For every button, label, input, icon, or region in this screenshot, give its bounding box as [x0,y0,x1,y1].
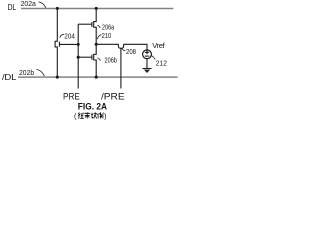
svg-text:210: 210 [102,31,112,40]
svg-text:): ) [104,112,106,120]
svg-text:PRE: PRE [63,90,80,101]
svg-text:202a: 202a [21,0,36,8]
svg-text:212: 212 [156,59,167,68]
svg-text:DL: DL [8,3,17,12]
svg-text:Vref: Vref [152,41,165,50]
svg-text:/PRE: /PRE [101,90,125,101]
svg-text:204: 204 [64,31,75,40]
svg-text:208: 208 [126,47,136,56]
svg-text:202b: 202b [19,68,34,77]
svg-text:/DL: /DL [2,73,17,82]
svg-text:206a: 206a [102,22,114,31]
svg-text:(: ( [74,112,77,120]
svg-text:FIG. 2A: FIG. 2A [78,101,108,111]
svg-text:206b: 206b [105,56,117,65]
